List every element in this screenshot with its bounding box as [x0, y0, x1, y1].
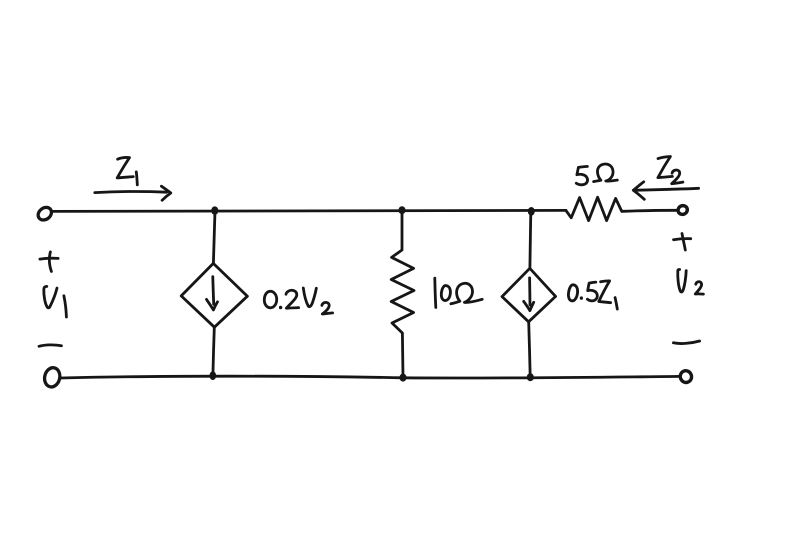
arrow I1 pointing right	[95, 186, 171, 200]
label plus V1	[40, 252, 58, 272]
wire node1 to source1 top	[213, 211, 215, 263]
label I1 with arrow	[117, 157, 137, 184]
label I2 with arrow	[658, 157, 683, 184]
wire source2 bottom to bottom rail	[529, 322, 531, 377]
label minus V1	[39, 345, 61, 346]
label 0.5I1	[568, 281, 617, 309]
terminal port2 bottom-right	[679, 369, 694, 384]
label V1	[44, 286, 67, 317]
resistor 5ohm horizontal	[566, 197, 622, 220]
terminal port1 bottom-left	[43, 366, 62, 388]
label V2	[678, 269, 704, 294]
label plus V2	[674, 234, 691, 251]
wire node3 to source2 top	[529, 212, 533, 269]
wire top rail left-to-5ohm	[52, 210, 566, 211]
resistor 10ohm vertical	[391, 211, 414, 378]
node junction bottom-2	[399, 374, 406, 382]
label 5ohm	[576, 164, 617, 185]
label 0.2V2	[264, 288, 332, 314]
wire top rail after 5ohm resistor	[623, 210, 678, 211]
node junction bottom-1	[210, 371, 217, 380]
dependent source 0.2V2 diamond	[181, 263, 247, 327]
label minus V2	[673, 341, 699, 344]
terminal port1 top-left	[36, 205, 54, 223]
node junction bottom-3	[527, 373, 534, 381]
node junction top-1	[211, 206, 218, 214]
arrow I2 pointing left	[633, 182, 698, 200]
dependent source 0.2V2 arrow	[207, 277, 218, 310]
terminal port2 top-right	[677, 204, 689, 216]
dependent source 0.5I1 arrow	[524, 278, 534, 311]
node junction top-2	[398, 206, 405, 214]
wire source1 bottom to bottom rail	[213, 327, 214, 375]
label 10ohm	[435, 278, 482, 307]
node junction top-3	[528, 207, 535, 216]
wire bottom rail	[61, 376, 680, 378]
dependent source 0.5I1 diamond	[502, 268, 556, 322]
